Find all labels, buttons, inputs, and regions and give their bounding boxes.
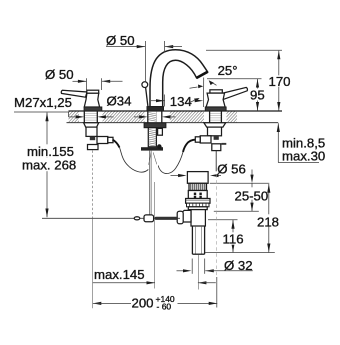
svg-text:218: 218 [257, 214, 279, 229]
svg-text:Ø34: Ø34 [107, 93, 132, 108]
svg-text:Ø 50: Ø 50 [45, 67, 74, 82]
svg-text:25-50: 25-50 [235, 188, 269, 203]
svg-text:Ø 56: Ø 56 [217, 162, 246, 177]
svg-text:Ø 32: Ø 32 [224, 258, 253, 273]
svg-text:116: 116 [223, 232, 244, 247]
svg-text:Ø 50: Ø 50 [106, 33, 135, 48]
svg-text:max.30: max.30 [282, 149, 325, 164]
svg-text:max.145: max.145 [94, 267, 145, 282]
svg-text:95: 95 [250, 88, 265, 103]
svg-text:- 60: - 60 [157, 302, 172, 312]
svg-text:25°: 25° [218, 63, 238, 78]
svg-text:M27x1,25: M27x1,25 [14, 95, 72, 110]
svg-text:200: 200 [132, 295, 154, 310]
svg-text:max. 268: max. 268 [22, 158, 76, 173]
svg-text:170: 170 [269, 74, 291, 89]
svg-text:134: 134 [170, 94, 192, 109]
